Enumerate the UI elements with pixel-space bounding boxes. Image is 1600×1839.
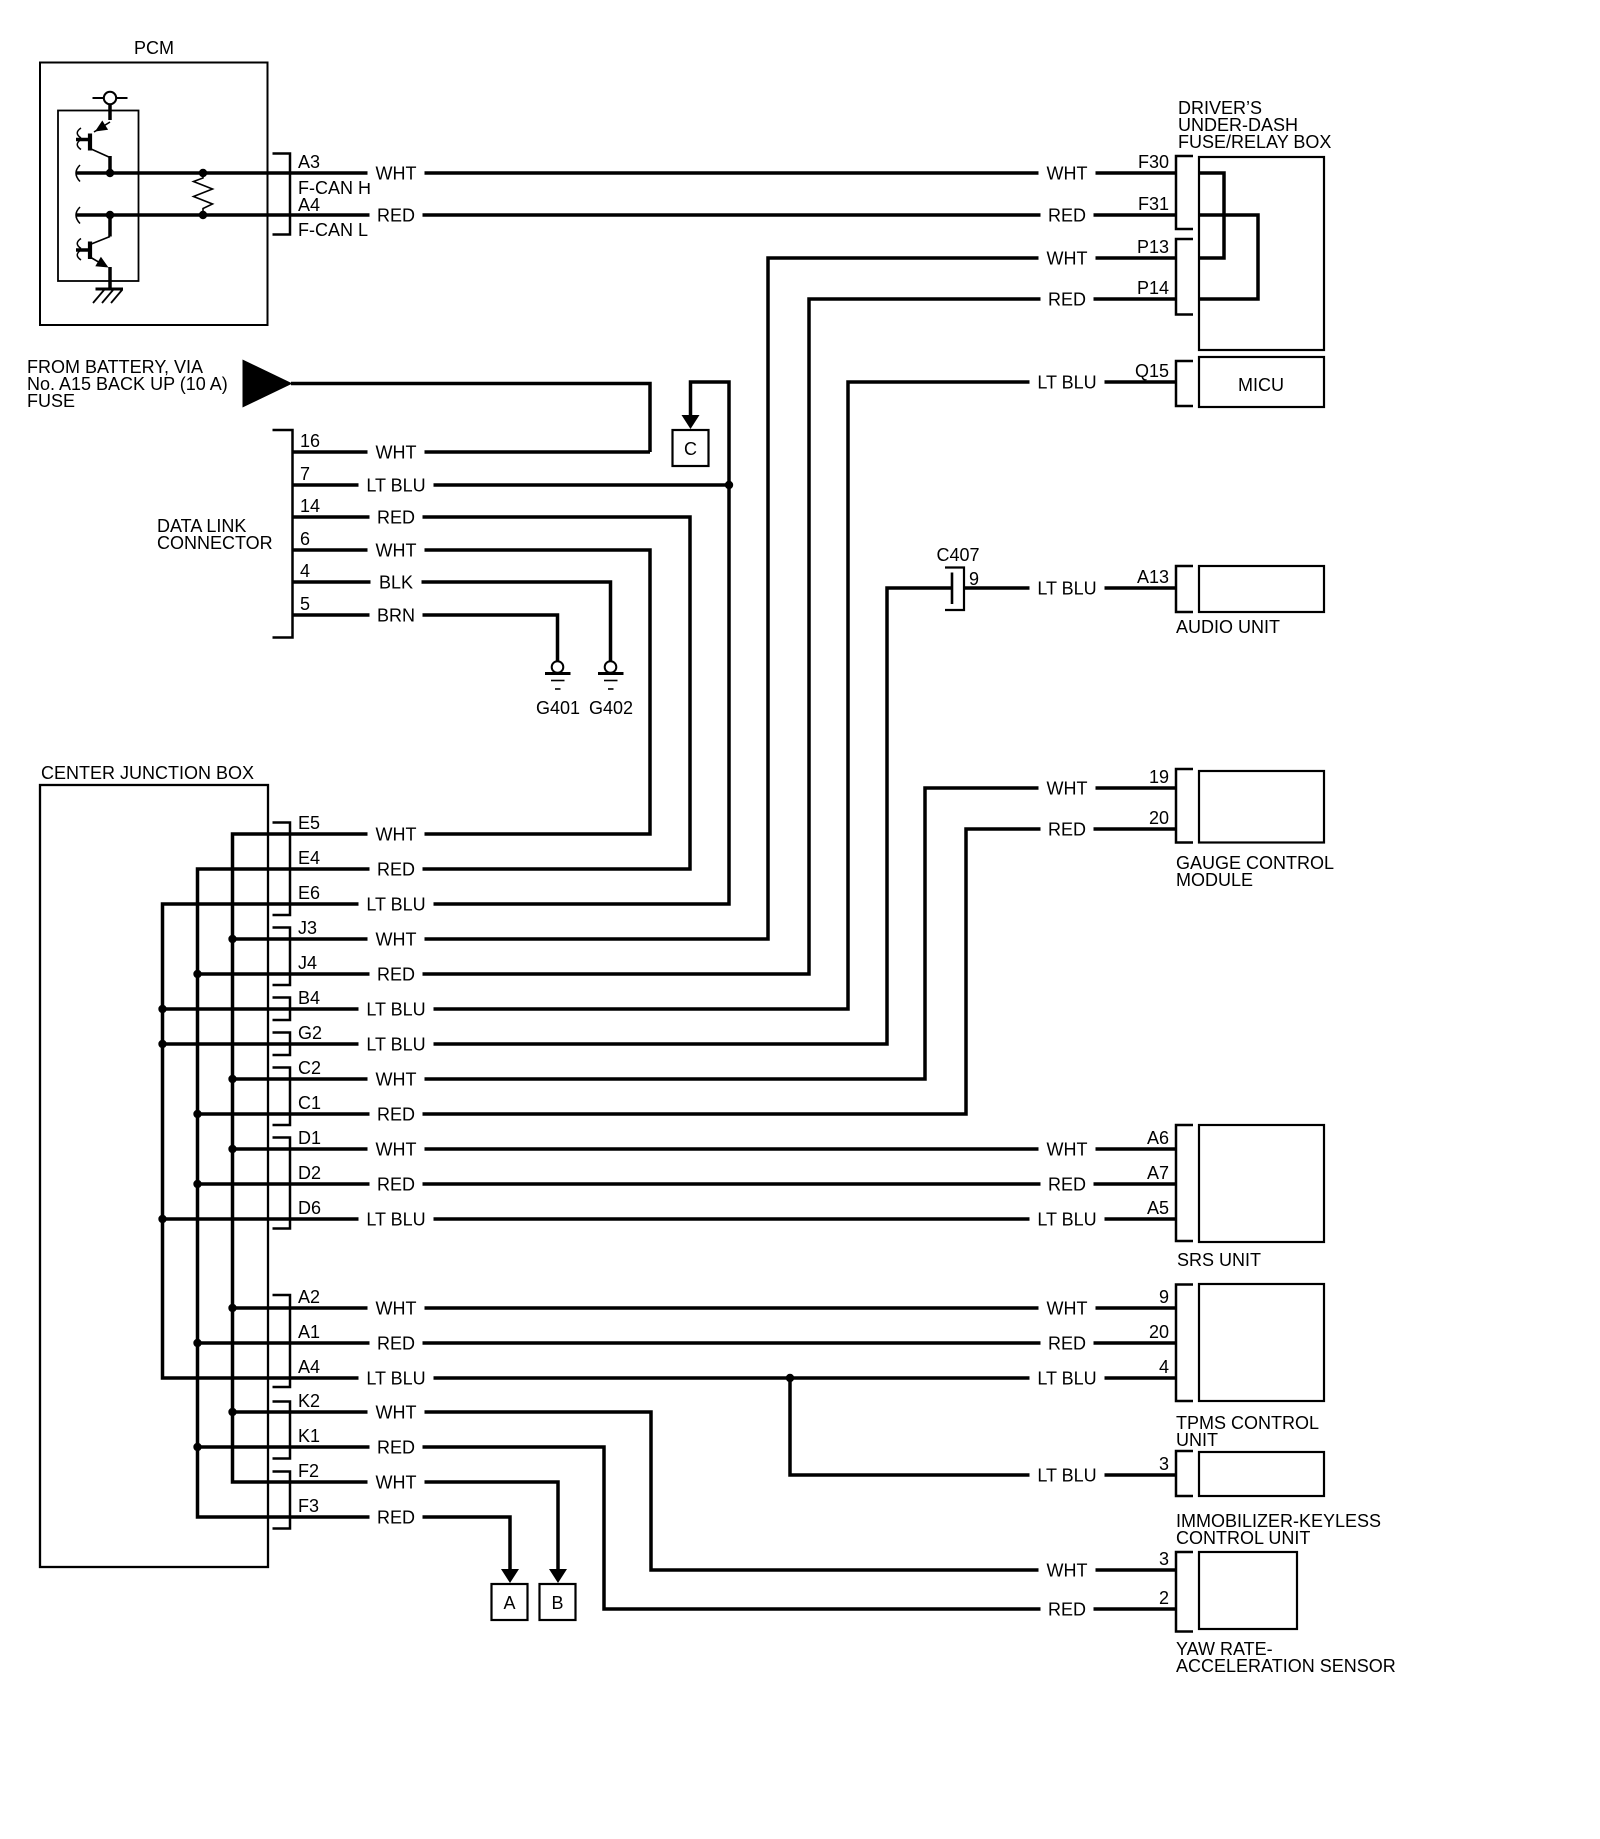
CJB internal stub at y=1343: [198, 1341, 291, 1345]
connector bracket 19/20: [1176, 769, 1193, 843]
svg-text:WHT: WHT: [376, 1140, 417, 1160]
wire color label WHT at y=1149: [368, 1139, 425, 1159]
transistor Q1 (PNP driver, F-CAN H): [88, 134, 92, 151]
junction node: [158, 1005, 166, 1013]
wire color label RED at y=869: [370, 859, 423, 879]
in-line connector C407: [951, 573, 954, 605]
wire DLC pin 4 (BLK) to ground G402: [293, 582, 611, 661]
svg-text:G401: G401: [536, 698, 580, 718]
wire color label WHT at y=939: [368, 929, 425, 949]
connector bracket 9/20/4: [1176, 1285, 1193, 1402]
yaw rate-acceleration sensor box: [1199, 1552, 1297, 1629]
wire branch to connector C: [691, 382, 730, 485]
ground G402: [605, 661, 617, 673]
wire color label WHT at y=1482: [368, 1472, 425, 1492]
svg-text:CONTROL UNIT: CONTROL UNIT: [1176, 1528, 1310, 1548]
coil squiggle marks at Q2 base: [77, 239, 81, 261]
svg-text:RED: RED: [1048, 1334, 1086, 1354]
CJB internal stub at y=1412: [233, 1410, 291, 1414]
svg-text:A1: A1: [298, 1322, 320, 1342]
svg-text:LT BLU: LT BLU: [366, 1210, 425, 1230]
node on F-CAN H line: [106, 169, 114, 177]
wire color label LT BLU at y=1475: [1030, 1465, 1105, 1485]
svg-text:RED: RED: [377, 965, 415, 985]
CJB internal stub at y=1219: [163, 1217, 291, 1221]
svg-text:WHT: WHT: [1047, 164, 1088, 184]
connector bracket P13/P14: [1176, 239, 1193, 315]
arrow into C: [682, 415, 700, 429]
wire color label WHT at y=1570: [1039, 1560, 1096, 1580]
svg-text:BLK: BLK: [379, 573, 413, 593]
junction node: [228, 1145, 236, 1153]
svg-text:E5: E5: [298, 813, 320, 833]
svg-text:WHT: WHT: [1047, 1561, 1088, 1581]
svg-text:LT BLU: LT BLU: [1037, 373, 1096, 393]
node on F-CAN L line: [106, 211, 114, 219]
svg-text:WHT: WHT: [1047, 1140, 1088, 1160]
gauge control module box: [1199, 771, 1324, 843]
wire color label RED at y=974: [370, 964, 423, 984]
svg-text:J4: J4: [298, 953, 317, 973]
CJB connector bracket F2/F3: [273, 1472, 291, 1529]
svg-text:RED: RED: [377, 1105, 415, 1125]
wire color label RED at y=1517: [370, 1507, 423, 1527]
wire color label LT BLU at y=904: [359, 894, 434, 914]
svg-text:F31: F31: [1138, 194, 1169, 214]
svg-text:D1: D1: [298, 1128, 321, 1148]
wire CJB K1 to yaw rate sensor 2 (RED): [290, 1447, 1176, 1609]
svg-text:WHT: WHT: [1047, 1299, 1088, 1319]
wire CJB D2 to SRS unit A7 (RED): [290, 1182, 1176, 1186]
wire color label RED at y=299: [1041, 289, 1094, 309]
wire color label WHT at y=173: [368, 163, 425, 183]
TPMS control unit box: [1199, 1284, 1324, 1401]
junction node: [193, 1443, 201, 1451]
svg-text:4: 4: [1159, 1357, 1169, 1377]
svg-text:RED: RED: [1048, 206, 1086, 226]
svg-text:A4: A4: [298, 195, 320, 215]
CJB connector bracket E5/E4/E6: [273, 823, 291, 916]
svg-text:C: C: [684, 439, 697, 459]
junction node: [193, 1110, 201, 1118]
audio unit box: [1199, 566, 1324, 612]
svg-text:3: 3: [1159, 1549, 1169, 1569]
svg-text:K1: K1: [298, 1426, 320, 1446]
CJB internal bus E5 branch: [233, 834, 291, 1482]
wire color label LT BLU at y=1378: [1030, 1368, 1105, 1388]
CJB internal stub at y=1308: [233, 1306, 291, 1310]
CJB connector bracket D1/D2/D6: [273, 1138, 291, 1229]
svg-text:WHT: WHT: [376, 1070, 417, 1090]
connector bracket 3/2: [1176, 1552, 1193, 1632]
svg-text:LT BLU: LT BLU: [366, 476, 425, 496]
wire DLC pin 7 (LT BLU) to node C and CJB E6: [290, 485, 729, 904]
CJB internal stub at y=1149: [233, 1147, 291, 1151]
junction node: [158, 1215, 166, 1223]
wire color label WHT at y=173: [1039, 163, 1096, 183]
svg-text:F30: F30: [1138, 152, 1169, 172]
svg-text:F2: F2: [298, 1461, 319, 1481]
branch to immobilizer 3 (LT BLU): [790, 1378, 1176, 1475]
connector A box: [492, 1584, 528, 1620]
resistor top node: [199, 169, 207, 177]
wire color label RED at y=1184: [370, 1174, 423, 1194]
svg-text:WHT: WHT: [376, 1299, 417, 1319]
SRS unit box: [1199, 1125, 1324, 1242]
CJB internal stub at y=974: [198, 972, 291, 976]
wire color label WHT at y=550: [368, 540, 425, 560]
wire color label LT BLU at y=588: [1030, 578, 1105, 598]
CJB connector bracket A2/A1/A4: [273, 1295, 291, 1387]
svg-text:P13: P13: [1137, 237, 1169, 257]
wire color label RED at y=1343: [1041, 1333, 1094, 1353]
svg-text:6: 6: [300, 529, 310, 549]
wire color label RED at y=1343: [370, 1333, 423, 1353]
svg-text:RED: RED: [1048, 290, 1086, 310]
junction node: [228, 1408, 236, 1416]
svg-text:RED: RED: [377, 206, 415, 226]
svg-text:19: 19: [1149, 767, 1169, 787]
driver's under-dash fuse/relay box: [1199, 157, 1324, 350]
wire color label RED at y=1447: [370, 1437, 423, 1457]
svg-text:D2: D2: [298, 1163, 321, 1183]
svg-text:WHT: WHT: [376, 541, 417, 561]
svg-text:A: A: [503, 1593, 515, 1613]
wire color label LT BLU at y=485: [359, 475, 434, 495]
svg-text:LT BLU: LT BLU: [366, 1035, 425, 1055]
svg-text:20: 20: [1149, 1322, 1169, 1342]
svg-text:CONNECTOR: CONNECTOR: [157, 533, 273, 553]
wire color label WHT at y=452: [368, 442, 425, 462]
svg-text:16: 16: [300, 431, 320, 451]
wire color label LT BLU at y=1009: [359, 999, 434, 1019]
svg-text:A2: A2: [298, 1287, 320, 1307]
PCM connector bracket A3/A4: [273, 154, 291, 235]
svg-text:7: 7: [300, 464, 310, 484]
connector B box: [540, 1584, 576, 1620]
coil squiggle at F-CAN L line end: [76, 207, 80, 224]
data link connector bracket: [273, 430, 293, 638]
svg-text:WHT: WHT: [1047, 249, 1088, 269]
svg-text:RED: RED: [1048, 1600, 1086, 1620]
svg-text:4: 4: [300, 561, 310, 581]
wire CJB C2 to gauge control module 19 (WHT): [290, 788, 1176, 1079]
svg-text:C407: C407: [936, 545, 979, 565]
wire CJB B4 to MICU Q15 (LT BLU): [290, 382, 1176, 1009]
CJB internal stub at y=1044: [163, 1042, 291, 1046]
wire CJB A2 to TPMS 9 (WHT): [290, 1306, 1176, 1310]
svg-text:WHT: WHT: [376, 825, 417, 845]
wire from power circle to Q1 emitter: [108, 104, 112, 120]
wire CJB A4 to TPMS 4 (LT BLU): [290, 1376, 1176, 1380]
CJB connector bracket C2/C1: [273, 1068, 291, 1126]
wire CJB K2 to yaw rate sensor 3 (WHT): [290, 1412, 1176, 1570]
CJB internal bus E6 branch: [163, 904, 291, 1378]
coil squiggle marks at Q1 base: [77, 128, 81, 150]
svg-text:MODULE: MODULE: [1176, 870, 1253, 890]
wire color label RED at y=829: [1041, 819, 1094, 839]
MICU box: [1199, 357, 1324, 407]
wire color label LT BLU at y=1044: [359, 1034, 434, 1054]
svg-text:E4: E4: [298, 848, 320, 868]
wire color label RED at y=215: [370, 205, 423, 225]
wire CJB C1 to gauge control module 20 (RED): [290, 829, 1176, 1114]
wire color label RED at y=517: [370, 507, 423, 527]
svg-text:MICU: MICU: [1238, 375, 1284, 395]
wire color label LT BLU at y=382: [1030, 372, 1105, 392]
resistor bottom node: [199, 211, 207, 219]
CJB internal stub at y=1184: [198, 1182, 291, 1186]
svg-text:14: 14: [300, 496, 320, 516]
wire color label LT BLU at y=1219: [1030, 1209, 1105, 1229]
wire F-CAN H: PCM A3 to fuse box F30 (WHT): [76, 171, 1176, 175]
svg-text:LT BLU: LT BLU: [1037, 1369, 1096, 1389]
junction node: [228, 1304, 236, 1312]
wire color label WHT at y=834: [368, 824, 425, 844]
svg-text:G402: G402: [589, 698, 633, 718]
svg-text:WHT: WHT: [1047, 779, 1088, 799]
junction node: [228, 935, 236, 943]
svg-text:RED: RED: [377, 1175, 415, 1195]
wire battery feed to data link connector pin 16: [291, 384, 650, 453]
wire CJB F3 to connector A (RED): [290, 1517, 510, 1570]
internal wire F31 to P14: [1199, 215, 1258, 299]
svg-text:LT BLU: LT BLU: [1037, 579, 1096, 599]
svg-text:RED: RED: [377, 508, 415, 528]
wire CJB D6 to SRS unit A5 (LT BLU): [290, 1217, 1176, 1221]
svg-text:C1: C1: [298, 1093, 321, 1113]
svg-text:SRS UNIT: SRS UNIT: [1177, 1250, 1261, 1270]
CJB connector bracket K2/K1: [273, 1402, 291, 1459]
svg-text:LT BLU: LT BLU: [366, 1000, 425, 1020]
wire color label WHT at y=1308: [1039, 1298, 1096, 1318]
svg-text:UNIT: UNIT: [1176, 1430, 1218, 1450]
power source circle B+: [104, 92, 116, 104]
wire color label WHT at y=1079: [368, 1069, 425, 1089]
svg-text:9: 9: [969, 569, 979, 589]
junction node: [228, 1075, 236, 1083]
wire color label WHT at y=788: [1039, 778, 1096, 798]
connector bracket A6/A7/A5: [1176, 1125, 1193, 1241]
svg-text:B: B: [551, 1593, 563, 1613]
wire F-CAN L: PCM A4 to fuse box F31 (RED): [76, 213, 1176, 217]
svg-text:5: 5: [300, 594, 310, 614]
svg-text:A4: A4: [298, 1357, 320, 1377]
svg-text:Q15: Q15: [1135, 361, 1169, 381]
svg-text:3: 3: [1159, 1454, 1169, 1474]
wire color label BLK at y=582: [371, 572, 422, 592]
svg-text:B4: B4: [298, 988, 320, 1008]
wire color label WHT at y=1412: [368, 1402, 425, 1422]
svg-text:RED: RED: [377, 860, 415, 880]
terminating resistor between F-CAN H and F-CAN L: [194, 173, 213, 215]
svg-text:WHT: WHT: [376, 1403, 417, 1423]
svg-text:F-CAN L: F-CAN L: [298, 220, 368, 240]
svg-text:FUSE: FUSE: [27, 391, 75, 411]
wire CJB A1 to TPMS 20 (RED): [290, 1341, 1176, 1345]
svg-text:A6: A6: [1147, 1128, 1169, 1148]
wire DLC pin 16 (WHT) from battery: [293, 450, 651, 454]
wire DLC pin 5 (BRN) to ground G401: [293, 615, 558, 661]
svg-text:RED: RED: [377, 1438, 415, 1458]
wire DLC pin 14 (RED) to CJB E4: [290, 517, 690, 869]
chassis ground inside PCM: [108, 284, 112, 289]
immobilizer-keyless control unit box: [1199, 1452, 1324, 1496]
svg-text:F3: F3: [298, 1496, 319, 1516]
PCM box: [40, 63, 268, 326]
svg-text:WHT: WHT: [376, 443, 417, 463]
junction node: [158, 1040, 166, 1048]
CJB connector bracket J3/J4: [273, 928, 291, 986]
wire color label RED at y=215: [1041, 205, 1094, 225]
wire color label LT BLU at y=1378: [359, 1368, 434, 1388]
battery feed arrow: [243, 360, 293, 408]
wire CJB G2 to audio unit A13 (LT BLU) via C407: [290, 588, 952, 1044]
svg-text:AUDIO UNIT: AUDIO UNIT: [1176, 617, 1280, 637]
internal wire F30 to P13: [1199, 173, 1224, 258]
CJB connector bracket G2: [273, 1033, 291, 1056]
wire CJB J4 to fuse box P14 (RED): [290, 299, 1176, 974]
svg-text:BRN: BRN: [377, 606, 415, 626]
svg-text:E6: E6: [298, 883, 320, 903]
CJB internal stub at y=1114: [198, 1112, 291, 1116]
connector C box: [673, 430, 709, 466]
svg-text:20: 20: [1149, 808, 1169, 828]
wire color label BRN at y=615: [370, 605, 423, 625]
svg-text:RED: RED: [377, 1508, 415, 1528]
svg-text:CENTER JUNCTION BOX: CENTER JUNCTION BOX: [41, 763, 254, 783]
arrow into A: [501, 1569, 519, 1583]
CJB internal stub at y=1009: [163, 1007, 291, 1011]
wire color label LT BLU at y=1219: [359, 1209, 434, 1229]
svg-text:RED: RED: [377, 1334, 415, 1354]
connector bracket Q15: [1176, 361, 1193, 406]
svg-text:WHT: WHT: [376, 1473, 417, 1493]
svg-text:RED: RED: [1048, 820, 1086, 840]
svg-text:WHT: WHT: [376, 930, 417, 950]
connector bracket F30/F31: [1176, 156, 1193, 229]
svg-text:LT BLU: LT BLU: [366, 895, 425, 915]
svg-text:A3: A3: [298, 152, 320, 172]
svg-text:A5: A5: [1147, 1198, 1169, 1218]
center junction box: [40, 785, 268, 1567]
svg-text:K2: K2: [298, 1391, 320, 1411]
transistor Q2 (NPN driver, F-CAN L): [108, 215, 112, 237]
svg-text:G2: G2: [298, 1023, 322, 1043]
wire color label RED at y=1114: [370, 1104, 423, 1124]
wire CJB F2 to connector B (WHT): [290, 1482, 558, 1570]
connector bracket A13: [1176, 566, 1193, 612]
junction node on pin 7 wire: [725, 481, 733, 489]
junction node: [193, 1180, 201, 1188]
ground G401: [552, 661, 564, 673]
CJB connector bracket B4: [273, 998, 291, 1021]
wire CJB D1 to SRS unit A6 (WHT): [290, 1147, 1176, 1151]
svg-text:J3: J3: [298, 918, 317, 938]
svg-text:FUSE/RELAY BOX: FUSE/RELAY BOX: [1178, 132, 1331, 152]
CJB internal stub at y=1079: [233, 1077, 291, 1081]
wire color label RED at y=1609: [1041, 1599, 1094, 1619]
wire color label WHT at y=258: [1039, 248, 1096, 268]
svg-text:A13: A13: [1137, 567, 1169, 587]
svg-text:A7: A7: [1147, 1163, 1169, 1183]
arrow into B: [549, 1569, 567, 1583]
wire color label WHT at y=1308: [368, 1298, 425, 1318]
svg-text:RED: RED: [1048, 1175, 1086, 1195]
junction node on A4 wire: [786, 1374, 794, 1382]
CJB internal stub at y=939: [233, 937, 291, 941]
svg-text:PCM: PCM: [134, 38, 174, 58]
PCM internal logic box: [58, 111, 139, 282]
svg-text:LT BLU: LT BLU: [1037, 1466, 1096, 1486]
svg-text:D6: D6: [298, 1198, 321, 1218]
CJB internal bus E4 branch: [198, 869, 291, 1517]
wire color label RED at y=1184: [1041, 1174, 1094, 1194]
CJB internal stub at y=1447: [198, 1445, 291, 1449]
svg-text:LT BLU: LT BLU: [366, 1369, 425, 1389]
wire DLC pin 6 (WHT) to CJB E5: [290, 550, 650, 834]
svg-text:WHT: WHT: [376, 164, 417, 184]
svg-text:LT BLU: LT BLU: [1037, 1210, 1096, 1230]
coil squiggle at F-CAN H line end: [76, 165, 80, 182]
junction node: [193, 970, 201, 978]
svg-text:P14: P14: [1137, 278, 1169, 298]
svg-text:ACCELERATION SENSOR: ACCELERATION SENSOR: [1176, 1656, 1396, 1676]
svg-text:C2: C2: [298, 1058, 321, 1078]
wire CJB J3 to fuse box P13 (WHT): [290, 258, 1176, 939]
wire color label WHT at y=1149: [1039, 1139, 1096, 1159]
connector bracket 3: [1176, 1451, 1193, 1496]
svg-text:2: 2: [1159, 1588, 1169, 1608]
svg-text:9: 9: [1159, 1287, 1169, 1307]
junction node: [193, 1339, 201, 1347]
